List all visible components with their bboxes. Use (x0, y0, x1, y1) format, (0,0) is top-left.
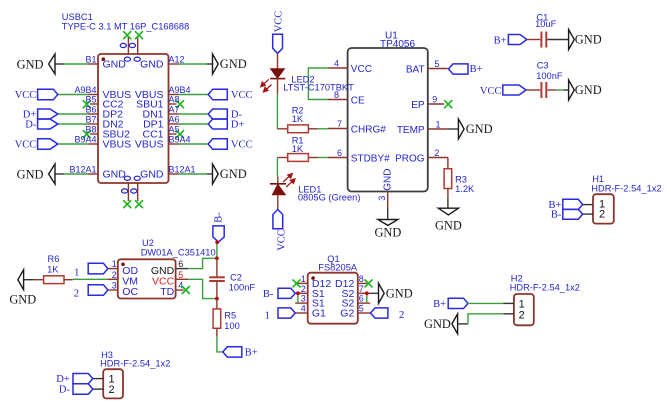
power flag VCC (below LED1) (273, 209, 283, 228)
net flag 2 (U2 pin3) (88, 285, 108, 296)
LED D2 (LED2) (270, 69, 285, 94)
svg-text:1K: 1K (47, 264, 59, 274)
wire LED2 to R2 (276, 94, 278, 129)
svg-text:B-: B- (551, 210, 562, 221)
svg-text:1: 1 (436, 120, 441, 130)
net flag B+ (H1 pin1) (563, 199, 583, 209)
no-connect X top shell pins (123, 31, 143, 39)
U1 pin numbers (334, 59, 441, 159)
svg-text:A12: A12 (169, 55, 185, 65)
svg-text:4: 4 (301, 304, 306, 314)
svg-text:VCC: VCC (15, 140, 37, 151)
IC U1 TP4056 (348, 48, 428, 192)
connector H3 (103, 369, 123, 398)
LED2 emission arrows (261, 79, 272, 92)
svg-text:A5: A5 (169, 125, 180, 135)
Q1 pin numbers (301, 274, 306, 314)
svg-text:1: 1 (301, 274, 306, 284)
USBC1 right pin names (135, 59, 164, 181)
no-connect X Q1 pin1 (293, 279, 301, 287)
svg-text:D+: D+ (56, 374, 70, 385)
svg-text:CHRG#: CHRG# (351, 125, 386, 136)
wire H2 pin2 to GND (458, 323, 468, 325)
svg-text:100nF: 100nF (229, 283, 256, 293)
U2 pin names (122, 265, 138, 298)
svg-text:TEMP: TEMP (397, 125, 425, 136)
svg-text:B+: B+ (245, 348, 258, 359)
ground flag A12 (213, 54, 219, 74)
svg-text:GND: GND (386, 286, 413, 300)
svg-text:GND: GND (103, 169, 127, 181)
svg-text:8: 8 (359, 274, 364, 284)
ground flag H2 (452, 314, 458, 334)
wire R3 to GND (447, 189, 449, 198)
svg-text:B5: B5 (85, 95, 96, 105)
resistor R5 (216, 299, 218, 309)
Q1 pin names (312, 278, 331, 320)
svg-text:HDR-F-2.54_1x2: HDR-F-2.54_1x2 (100, 359, 170, 369)
svg-text:GND: GND (435, 218, 462, 232)
svg-text:3: 3 (377, 196, 387, 201)
net flag D+ (H3 pin1) (73, 374, 93, 384)
svg-text:3: 3 (112, 281, 117, 291)
svg-text:B+: B+ (433, 299, 446, 310)
wire R1 to LED1 (276, 158, 278, 177)
no-connect X Q1 pin8 (365, 279, 373, 287)
net flag VCC (B9A4 left) (58, 143, 88, 145)
U1 right pin stubs (428, 69, 448, 158)
wire R6 to U2 pin2 (73, 278, 108, 280)
ground flag Q1 pin7 (379, 283, 385, 303)
svg-text:1K: 1K (292, 114, 304, 124)
net flag D- (B7) (58, 123, 88, 125)
U2 pin numbers (112, 259, 117, 290)
svg-text:C3: C3 (537, 61, 549, 71)
ground flag B12A1 left (49, 164, 55, 184)
wire R1 to STDBY# (318, 157, 328, 159)
net flag VCC (B9A4 right) (179, 143, 209, 145)
capacitor C2 (209, 258, 225, 298)
svg-text:TD: TD (160, 286, 174, 298)
wire PROG to R3 (447, 158, 449, 169)
svg-text:VCC: VCC (15, 90, 37, 101)
svg-text:1: 1 (112, 259, 117, 269)
svg-text:GND: GND (140, 169, 164, 181)
Q1 pin-1 dot (311, 276, 315, 280)
svg-text:HDR-F-2.54_1x2: HDR-F-2.54_1x2 (510, 282, 580, 292)
svg-text:H1: H1 (592, 174, 604, 184)
junction Q1 pin2 (296, 291, 300, 295)
svg-text:BAT: BAT (406, 65, 425, 76)
svg-text:VBUS: VBUS (135, 139, 164, 151)
svg-text:B12A1: B12A1 (69, 165, 96, 175)
no-connect X pin B8 (83, 130, 91, 138)
net flag D+ (B6) (58, 113, 88, 115)
connector H2 (514, 294, 534, 325)
svg-text:G2: G2 (340, 308, 354, 320)
svg-text:B1: B1 (85, 55, 96, 65)
resistor R2 (277, 128, 287, 130)
svg-text:5: 5 (434, 59, 439, 69)
svg-text:VCC: VCC (351, 64, 372, 75)
wire B12A1 right to GND (179, 173, 208, 175)
capacitor C1 (494, 12, 569, 47)
net flag 2 (Q1 pin5) (371, 308, 388, 318)
svg-text:GND: GND (140, 59, 164, 71)
net flag B+ (BAT) (449, 64, 469, 74)
svg-text:B+: B+ (494, 35, 507, 46)
Q1 right pin stubs (358, 283, 371, 313)
svg-text:GND: GND (9, 292, 36, 306)
net flag VCC (A9B4 right) (179, 94, 209, 96)
svg-text:100nF: 100nF (536, 71, 563, 81)
svg-text:B-: B- (214, 212, 225, 223)
svg-text:2: 2 (519, 309, 525, 321)
svg-text:6: 6 (359, 294, 364, 304)
svg-text:OC: OC (122, 286, 138, 298)
USBC1 left pin stubs (88, 64, 98, 174)
net flag B+ (H2 pin1) (448, 298, 468, 308)
svg-text:B8: B8 (85, 125, 96, 135)
net flag D+ (A6 right) (179, 123, 209, 125)
svg-text:1.2K: 1.2K (455, 184, 475, 194)
no-connect X pin A5 (176, 130, 184, 138)
svg-text:GND: GND (575, 33, 602, 47)
svg-text:A8: A8 (169, 95, 180, 105)
no-connect X pin EP (444, 100, 452, 108)
wire A12 to GND (179, 63, 208, 65)
svg-text:A9B4: A9B4 (169, 85, 191, 95)
svg-text:B7: B7 (85, 115, 96, 125)
svg-text:TYPE-C 3.1 MT 16P_C168688: TYPE-C 3.1 MT 16P_C168688 (62, 21, 189, 31)
Q1 left pin stubs (295, 283, 308, 313)
no-connect X bottom shell pins (123, 200, 143, 208)
resistor R3 (444, 169, 452, 189)
svg-text:B9A4: B9A4 (169, 135, 191, 145)
svg-text:GND: GND (220, 167, 247, 181)
LED D1 (LED1) (270, 177, 286, 210)
svg-text:2: 2 (434, 148, 439, 158)
resistor R6 (34, 279, 44, 281)
svg-text:LTST-C170TBKT: LTST-C170TBKT (283, 83, 354, 93)
svg-text:B12A1: B12A1 (169, 165, 196, 175)
wire Q1 pins 7-6 bridge (366, 293, 368, 303)
H3 pin stubs (93, 379, 103, 390)
svg-text:GND: GND (575, 83, 602, 97)
svg-text:GND: GND (374, 226, 401, 240)
LED1 emission arrows (283, 174, 295, 187)
transistor Q1 FS8205A (308, 273, 358, 324)
wire R5 to B+ (217, 337, 223, 352)
power flag VCC (top, above LED2) (273, 34, 283, 53)
svg-text:B+: B+ (470, 64, 483, 75)
svg-text:1: 1 (74, 266, 80, 278)
svg-text:2: 2 (109, 384, 115, 396)
svg-text:B-: B- (263, 289, 274, 300)
connector H1 (593, 194, 614, 223)
svg-text:D-: D- (25, 120, 37, 131)
svg-text:EP: EP (411, 100, 425, 111)
wire B1 to GND (64, 63, 88, 65)
junction B- flag (215, 240, 219, 244)
svg-text:VCC: VCC (231, 90, 253, 101)
net flag 1 (Q1 pin4) (278, 308, 295, 318)
svg-text:VCC: VCC (480, 86, 502, 97)
svg-text:A9B4: A9B4 (74, 85, 96, 95)
LED2 lead from VCC (277, 53, 279, 68)
wire B- flag to C2 (216, 242, 218, 258)
ground flag B1 (49, 54, 55, 74)
svg-text:VCC: VCC (231, 140, 253, 151)
svg-text:FS8205A: FS8205A (318, 262, 358, 272)
wire R2 to CHRG# (318, 128, 328, 130)
svg-text:GND: GND (17, 167, 44, 181)
svg-text:2: 2 (599, 209, 605, 221)
junction Q1 pin7 (365, 291, 369, 295)
wire TEMP to GND (447, 128, 458, 130)
no-connect X pin A8 (176, 100, 184, 108)
junction C2 top (215, 256, 219, 260)
no-connect X pin TD (182, 286, 190, 294)
svg-text:DW01A_C351410: DW01A_C351410 (141, 247, 216, 257)
svg-text:4: 4 (178, 281, 183, 291)
net flag D- (A7 right) (179, 113, 209, 115)
svg-text:CE: CE (351, 96, 365, 107)
wire H2 pin1 to B+ (468, 302, 504, 304)
svg-text:G1: G1 (312, 308, 326, 320)
wire Q1 pins 2-3 bridge (297, 293, 299, 303)
svg-text:VCC: VCC (277, 229, 288, 251)
svg-text:VCC: VCC (273, 11, 284, 33)
svg-text:5: 5 (359, 304, 364, 314)
U1 left pin stubs (328, 68, 348, 158)
wire U2 pin6 to C2 top node (188, 258, 217, 268)
ground flag TEMP (458, 119, 464, 139)
USBC1 shell pins top (0,0) (128, 36, 137, 54)
net flag 1 (U2 pin1) (88, 263, 108, 274)
svg-text:0805G (Green): 0805G (Green) (298, 193, 361, 203)
svg-text:5: 5 (178, 270, 183, 280)
wire B12A1 to GND (64, 173, 88, 175)
net flag B+ (below R5) (223, 347, 242, 357)
ground flag R6 (18, 270, 24, 290)
ground flag R3 (438, 208, 458, 215)
wire U1 pin3 to GND (387, 209, 389, 219)
wire GND to R6 (24, 279, 34, 281)
net flag B- (Q1 pin2) (278, 288, 295, 298)
U1 pin 3 stub (GND, bottom) (387, 192, 389, 209)
ground flag B12A1 right (213, 164, 219, 184)
svg-text:PROG: PROG (395, 154, 425, 165)
net flag D- (H3 pin2) (73, 384, 93, 395)
svg-text:HDR-F-2.54_1x2: HDR-F-2.54_1x2 (591, 183, 661, 193)
svg-text:2: 2 (112, 270, 117, 280)
svg-text:1: 1 (265, 309, 271, 321)
svg-text:D+: D+ (231, 120, 245, 131)
svg-text:D-: D- (59, 385, 71, 396)
USBC1 left pin numbers (69, 55, 96, 175)
net flag B- (H1 pin2) (563, 209, 583, 219)
ground flag C1 (569, 30, 575, 50)
U2 right pin stubs (176, 268, 189, 270)
svg-text:6: 6 (178, 259, 183, 269)
svg-text:B6: B6 (85, 105, 96, 115)
svg-text:GND: GND (17, 57, 44, 71)
resistor R1 (277, 157, 287, 159)
svg-text:R6: R6 (48, 254, 60, 264)
svg-text:7: 7 (359, 284, 364, 294)
wire VCC-CE loop (308, 68, 327, 100)
svg-text:7: 7 (337, 119, 342, 129)
capacitor C3 (480, 61, 569, 99)
USBC1 right pin stubs (169, 64, 179, 174)
U2 left pin stubs (108, 269, 118, 290)
svg-text:2: 2 (301, 284, 306, 294)
svg-text:GND: GND (424, 317, 451, 331)
svg-text:2: 2 (399, 309, 405, 321)
U1 pin names (351, 64, 390, 165)
junction C2 bottom (215, 297, 219, 301)
H2 pin stubs (504, 303, 514, 313)
svg-text:GND: GND (382, 169, 393, 191)
svg-text:A7: A7 (169, 105, 180, 115)
svg-text:GND: GND (220, 57, 247, 71)
USBC1 pin-1 dot (102, 57, 106, 61)
U2 pin-1 dot (121, 263, 125, 267)
svg-text:1K: 1K (292, 144, 304, 154)
svg-text:6: 6 (337, 148, 342, 158)
svg-text:9: 9 (432, 95, 437, 105)
svg-text:C2: C2 (230, 272, 242, 282)
svg-text:10uF: 10uF (535, 19, 557, 29)
USBC1 right pin numbers (169, 55, 196, 175)
svg-text:4: 4 (334, 59, 339, 69)
USBC1 shell pins bottom (0,0) (128, 183, 137, 201)
USBC1 left pin names (103, 59, 132, 181)
svg-text:GND: GND (466, 122, 493, 136)
USBC1 reference label (62, 12, 189, 31)
USBC1 shell pin numbers 0 (120, 43, 140, 193)
svg-text:TP4056: TP4056 (380, 39, 415, 50)
svg-text:A6: A6 (169, 115, 180, 125)
svg-text:3: 3 (301, 294, 306, 304)
wire Q1 pin7 to GND (370, 292, 378, 294)
svg-text:VBUS: VBUS (103, 139, 132, 151)
connector USBC1 (98, 54, 169, 183)
svg-text:2: 2 (74, 288, 80, 300)
H1 pin stubs (583, 205, 593, 215)
no-connect X pin B5 (83, 100, 91, 108)
svg-text:GND: GND (103, 59, 127, 71)
wire U2 pin5 to C2 bottom node (188, 279, 217, 298)
svg-text:STDBY#: STDBY# (351, 154, 390, 165)
ground flag U1 pin3 (378, 220, 398, 226)
net flag VCC (A9B4 left) (58, 94, 88, 96)
svg-text:R5: R5 (224, 311, 236, 321)
svg-text:B9A4: B9A4 (74, 135, 96, 145)
ground flag C3 (569, 80, 575, 100)
IC U2 DW01A (118, 259, 176, 298)
U1 reference label (380, 30, 415, 50)
svg-text:100: 100 (224, 321, 240, 331)
